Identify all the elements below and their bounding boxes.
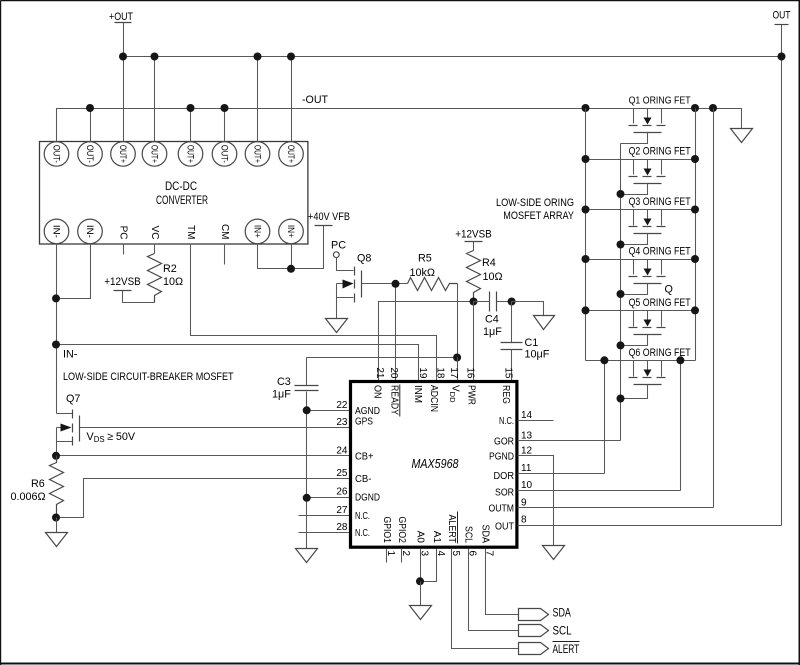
svg-text:+12VSB: +12VSB bbox=[104, 276, 141, 288]
svg-text:OUT+: OUT+ bbox=[186, 145, 196, 163]
wire IN- net to ADCIN pin 18 bbox=[57, 345, 419, 382]
wire VDD pin 17 down bbox=[457, 358, 459, 382]
wire PWR pin 16 down bbox=[473, 302, 475, 382]
svg-text:READY: READY bbox=[389, 385, 400, 415]
svg-text:GPIO2: GPIO2 bbox=[396, 517, 407, 544]
svg-text:+40V VFB: +40V VFB bbox=[308, 211, 350, 223]
wire pin OUT+ 5 up to -OUT rail bbox=[190, 109, 192, 142]
svg-text:SCL: SCL bbox=[553, 625, 573, 637]
svg-text:LOW-SIDE CIRCUIT-BREAKER MOSFE: LOW-SIDE CIRCUIT-BREAKER MOSFET bbox=[63, 371, 234, 383]
capacitor C3 1uF bbox=[272, 358, 319, 401]
wire GPIO2 stub bbox=[401, 549, 403, 563]
wire IN+ 8 down bbox=[291, 244, 293, 269]
ground below A0/A1 bbox=[410, 606, 432, 620]
svg-text:N.C.: N.C. bbox=[355, 511, 370, 522]
svg-text:DGND: DGND bbox=[355, 493, 380, 504]
svg-text:Q8: Q8 bbox=[357, 253, 371, 265]
wire R5 right end down to VDD node bbox=[457, 284, 459, 358]
connector flag SDA bbox=[519, 608, 572, 621]
svg-text:IN+: IN+ bbox=[253, 225, 263, 238]
wire ALERT pin 5 to flag bbox=[452, 549, 519, 649]
wire VDD run to C3 bbox=[307, 357, 458, 359]
wire Q8 gate to READY junction bbox=[362, 283, 408, 285]
ground below R6 bbox=[46, 533, 68, 547]
pin 18 ADCIN bbox=[428, 367, 446, 412]
pin OUT+ 3 bbox=[111, 142, 136, 167]
pin 13 GOR bbox=[494, 430, 533, 447]
svg-text:ON: ON bbox=[371, 385, 382, 399]
wire A0 pin 3 down bbox=[420, 549, 422, 582]
ground at -OUT rail right end bbox=[731, 129, 753, 143]
svg-text:CM: CM bbox=[219, 224, 230, 240]
svg-text:REG: REG bbox=[500, 385, 511, 404]
svg-text:28: 28 bbox=[336, 522, 348, 533]
wire CM stub bbox=[224, 244, 226, 265]
wire right bus of FET array bbox=[695, 109, 697, 361]
pin 21 ON bbox=[371, 367, 385, 398]
wire NC pin 27 stub bbox=[299, 515, 351, 517]
svg-text:R4: R4 bbox=[482, 257, 496, 269]
wire C4 left plate bbox=[474, 301, 490, 303]
pin 15 REG bbox=[500, 367, 514, 404]
transistor Q8 bbox=[337, 253, 372, 319]
svg-text:OUT: OUT bbox=[773, 10, 791, 22]
wire SCL pin 6 to flag bbox=[469, 549, 519, 631]
svg-text:10Ω: 10Ω bbox=[483, 271, 503, 283]
wire OUT vertical line to pin 8 bbox=[781, 25, 783, 526]
svg-text:Q5 ORING FET: Q5 ORING FET bbox=[629, 297, 691, 309]
wire pin OUT- 6 up to -OUT rail bbox=[224, 109, 226, 142]
svg-text:PC: PC bbox=[118, 226, 129, 240]
svg-text:N.C.: N.C. bbox=[355, 528, 370, 539]
pin 6 SCL bbox=[463, 526, 478, 557]
wire A1 pin 4 down join bbox=[421, 549, 437, 582]
pin 20 READY bbox=[388, 367, 400, 416]
wire IN- 1 down to Q7 drain bbox=[56, 244, 58, 414]
transistor Q1 ORING FET bbox=[621, 96, 691, 144]
pin 8 OUT bbox=[495, 515, 527, 533]
svg-text:16: 16 bbox=[465, 367, 476, 379]
DC-DC converter box bbox=[40, 142, 308, 245]
svg-text:SCL: SCL bbox=[463, 526, 474, 543]
junction dots top rails bbox=[86, 53, 786, 113]
wire REG node to ground right bbox=[512, 302, 544, 316]
svg-text:9: 9 bbox=[521, 497, 527, 508]
svg-text:Q7: Q7 bbox=[66, 393, 80, 405]
svg-text:IN-: IN- bbox=[85, 225, 95, 238]
svg-text:21: 21 bbox=[374, 367, 385, 379]
ground below Q8 bbox=[326, 319, 348, 333]
svg-text:OUT+: OUT+ bbox=[150, 145, 160, 163]
svg-text:15: 15 bbox=[503, 367, 514, 379]
svg-text:0.006Ω: 0.006Ω bbox=[11, 491, 46, 503]
svg-text:IN-: IN- bbox=[52, 225, 62, 238]
pin IN- 2 bbox=[78, 219, 103, 244]
svg-text:R5: R5 bbox=[418, 253, 432, 265]
svg-text:SDA: SDA bbox=[553, 608, 572, 620]
pin 23 GPS bbox=[336, 417, 373, 429]
resistor R6 0.006ohm bbox=[11, 456, 64, 518]
wire IN+ pins join bbox=[258, 226, 324, 269]
svg-text:18: 18 bbox=[435, 367, 446, 379]
transistor Q7 circuit breaker bbox=[57, 393, 81, 456]
pin 9 OUTM bbox=[489, 497, 528, 514]
wire CB- pin 25 jog from R6 bottom bbox=[57, 479, 351, 518]
svg-text:ALERT: ALERT bbox=[553, 644, 580, 656]
wire OUT pin 8 to OUT line bbox=[518, 525, 782, 527]
resistor R2 10ohm bbox=[148, 254, 184, 303]
svg-text:C1: C1 bbox=[525, 337, 539, 349]
svg-text:PGND: PGND bbox=[489, 451, 514, 462]
svg-text:11: 11 bbox=[521, 463, 532, 474]
svg-text:OUTM: OUTM bbox=[489, 503, 515, 514]
pin 11 DOR bbox=[494, 463, 532, 482]
svg-text:DC-DC: DC-DC bbox=[165, 179, 197, 193]
svg-text:A0: A0 bbox=[415, 531, 426, 544]
wire DOR vertical to Q6 rail bbox=[604, 361, 606, 474]
svg-text:10: 10 bbox=[521, 480, 533, 491]
svg-text:PWR: PWR bbox=[466, 385, 477, 405]
wire C4 right plate to REG node bbox=[497, 301, 512, 303]
svg-text:8: 8 bbox=[521, 515, 527, 526]
svg-text:GOR: GOR bbox=[494, 436, 514, 447]
wire A0/A1 node to ground bbox=[420, 582, 422, 606]
node +12VSB right supply bbox=[455, 229, 492, 242]
svg-text:Q2 ORING FET: Q2 ORING FET bbox=[629, 146, 691, 158]
wire ON pin 21 run to C4 bbox=[379, 302, 474, 382]
svg-text:R6: R6 bbox=[31, 478, 45, 490]
svg-text:R2: R2 bbox=[163, 263, 177, 275]
svg-text:+12VSB: +12VSB bbox=[455, 229, 492, 241]
svg-text:SDA: SDA bbox=[480, 525, 491, 544]
pin OUT- 6 bbox=[212, 142, 237, 167]
transistor Q5 ORING FET bbox=[582, 297, 700, 349]
ground right of C4 bbox=[534, 316, 555, 330]
wire pin OUT+ 4 up to +OUT rail bbox=[154, 58, 156, 142]
svg-text:OUT+: OUT+ bbox=[286, 145, 296, 163]
svg-text:10kΩ: 10kΩ bbox=[410, 267, 435, 279]
pin 28 NC bbox=[336, 522, 370, 539]
svg-text:25: 25 bbox=[336, 468, 348, 479]
svg-text:Q1 ORING FET: Q1 ORING FET bbox=[629, 96, 691, 107]
pin 1 GPIO1 bbox=[381, 517, 396, 557]
pin 14 NC bbox=[499, 410, 533, 427]
wire gate bus of FET array bbox=[620, 144, 622, 441]
svg-text:C3: C3 bbox=[277, 376, 291, 388]
node PC terminal bbox=[331, 240, 346, 258]
svg-text:14: 14 bbox=[521, 410, 533, 421]
svg-text:1μF: 1μF bbox=[272, 389, 291, 401]
pin 26 DGND bbox=[336, 487, 380, 504]
svg-text:TM: TM bbox=[185, 225, 196, 239]
wire DGND pin 26 bbox=[307, 497, 351, 499]
svg-text:AGND: AGND bbox=[355, 406, 380, 417]
svg-text:10Ω: 10Ω bbox=[163, 276, 183, 288]
svg-text:DOR: DOR bbox=[494, 471, 515, 482]
svg-text:23: 23 bbox=[336, 417, 348, 428]
wire IN- 2 down joining bbox=[57, 244, 91, 299]
svg-text:IN-: IN- bbox=[63, 349, 78, 361]
pin 25 CB- bbox=[336, 468, 371, 485]
pin 5 ALERT bbox=[446, 512, 461, 557]
pin IN+ 7 bbox=[245, 219, 270, 244]
svg-text:ALERT: ALERT bbox=[446, 515, 457, 544]
svg-text:LOW-SIDE ORING: LOW-SIDE ORING bbox=[496, 197, 574, 209]
pin 22 AGND bbox=[336, 400, 380, 417]
svg-text:Q3 ORING FET: Q3 ORING FET bbox=[629, 196, 691, 208]
svg-text:13: 13 bbox=[521, 430, 533, 441]
svg-text:CB+: CB+ bbox=[355, 451, 374, 462]
wire CB+ pin 24 from Q7 source node bbox=[57, 455, 351, 457]
capacitor C4 1uF bbox=[483, 292, 502, 339]
wire PC stub bbox=[123, 244, 125, 255]
wire +OUT terminal down to pin OUT+ 3 bbox=[123, 23, 125, 142]
svg-text:PC: PC bbox=[331, 240, 346, 252]
svg-text:OUT: OUT bbox=[495, 522, 514, 533]
svg-text:1μF: 1μF bbox=[483, 326, 502, 338]
svg-text:VC: VC bbox=[149, 226, 160, 240]
resistor R4 10ohm bbox=[467, 242, 503, 302]
wire VC stub to R2 bbox=[154, 244, 156, 254]
pin 2 GPIO2 bbox=[396, 517, 411, 557]
pin 24 CB+ bbox=[336, 445, 373, 462]
connector flag ALERT bbox=[519, 642, 580, 656]
svg-text:OUT-: OUT- bbox=[220, 145, 230, 163]
svg-text:CONVERTER: CONVERTER bbox=[156, 193, 208, 207]
svg-text:C4: C4 bbox=[485, 314, 499, 326]
pin 12 PGND bbox=[489, 445, 533, 462]
wire C3 bottom / AGND DGND ground line bbox=[306, 392, 308, 549]
wire DOR pin 11 bbox=[518, 473, 605, 475]
wire SDA pin 7 to flag bbox=[486, 549, 519, 615]
svg-text:MAX5968: MAX5968 bbox=[412, 457, 459, 471]
pin 19 INM bbox=[412, 367, 428, 403]
svg-text:SOR: SOR bbox=[495, 488, 514, 499]
svg-text:27: 27 bbox=[336, 505, 348, 516]
resistor R5 10kohm bbox=[408, 253, 458, 291]
wire GPIO1 stub bbox=[386, 549, 388, 563]
wire pin OUT+ 7 up to +OUT rail bbox=[257, 58, 259, 142]
svg-text:MOSFET ARRAY: MOSFET ARRAY bbox=[503, 210, 574, 222]
wire pin OUT- 2 up to -OUT rail bbox=[90, 109, 92, 142]
ground PGND bbox=[543, 546, 565, 560]
svg-text:22: 22 bbox=[336, 400, 348, 411]
svg-text:OUT-: OUT- bbox=[85, 145, 95, 163]
pin 7 SDA bbox=[480, 525, 495, 557]
ground below C3 line bbox=[296, 549, 318, 563]
wire GOR pin 13 to gate bus bbox=[518, 440, 621, 442]
svg-text:12: 12 bbox=[521, 445, 533, 456]
svg-text:OUT+: OUT+ bbox=[253, 145, 263, 163]
wire OUTM vertical to -OUT rail bbox=[713, 109, 715, 508]
pin OUT+ 4 bbox=[142, 142, 167, 167]
wire R6 bottom to ground bbox=[56, 518, 58, 533]
node +OUT terminal bbox=[109, 11, 133, 23]
pin OUT- 2 bbox=[78, 142, 103, 167]
wire AGND pin 22 bbox=[307, 410, 351, 412]
svg-text:OUT+: OUT+ bbox=[118, 145, 128, 163]
wire pin OUT+ 8 up to +OUT rail bbox=[291, 58, 293, 142]
node +12VSB left supply bbox=[104, 276, 141, 291]
svg-text:+OUT: +OUT bbox=[109, 11, 133, 23]
svg-text:ADCIN: ADCIN bbox=[428, 385, 439, 412]
wire SOR vertical to Q6 rail bbox=[680, 361, 682, 491]
node +40V VFB supply bbox=[308, 211, 350, 226]
wire TM to INM pin 19 bbox=[191, 244, 437, 382]
svg-text:17: 17 bbox=[448, 367, 459, 379]
svg-text:Q4 ORING FET: Q4 ORING FET bbox=[629, 246, 691, 258]
pin OUT+ 8 bbox=[279, 142, 304, 167]
pin 4 A1 bbox=[431, 531, 446, 557]
wire +OUT rail bbox=[124, 56, 782, 58]
svg-text:OUT-: OUT- bbox=[52, 145, 62, 163]
wire PC to Q8 drain bbox=[337, 258, 354, 271]
wire +12VSB to R2 bottom bbox=[123, 291, 155, 303]
svg-text:N.C.: N.C. bbox=[499, 416, 514, 427]
pin 17 VDD bbox=[448, 367, 460, 403]
transistor Q2 ORING FET bbox=[582, 146, 700, 199]
wire READY pin 20 down bbox=[395, 284, 397, 382]
op-amp ... IC U1 MAX5968 bbox=[351, 382, 517, 548]
transistor Q6 ORING FET bbox=[586, 347, 696, 403]
svg-text:10μF: 10μF bbox=[525, 349, 550, 361]
wire GPS pin 23 from Q7 gate bbox=[80, 427, 351, 429]
svg-text:IN+: IN+ bbox=[286, 225, 296, 238]
svg-text:INM: INM bbox=[412, 385, 423, 403]
node OUT terminal top right bbox=[773, 10, 791, 25]
svg-text:GPS: GPS bbox=[355, 417, 373, 428]
wire left bus of FET array bbox=[585, 109, 587, 361]
wire NC pin 14 stub bbox=[518, 420, 554, 422]
wire NC pin 28 stub bbox=[299, 532, 351, 534]
svg-text:26: 26 bbox=[336, 487, 348, 498]
pin OUT- 1 bbox=[44, 142, 69, 167]
wire OUTM pin 9 bbox=[518, 507, 714, 509]
connector flag SCL bbox=[519, 625, 573, 638]
svg-text:CB-: CB- bbox=[355, 474, 372, 485]
wire SOR pin 10 bbox=[518, 490, 681, 492]
svg-text:-OUT: -OUT bbox=[302, 94, 328, 106]
transistor Q3 ORING FET bbox=[582, 196, 700, 249]
pin OUT+ 5 bbox=[178, 142, 203, 167]
pin 27 NC bbox=[336, 505, 370, 522]
wire PGND pin 12 to ground bbox=[518, 456, 554, 546]
svg-text:Q: Q bbox=[665, 284, 673, 296]
wire REG pin 15 down bbox=[511, 350, 513, 382]
svg-text:19: 19 bbox=[417, 367, 428, 379]
pin IN- 1 bbox=[44, 219, 69, 244]
svg-text:24: 24 bbox=[336, 445, 348, 456]
pin 10 SOR bbox=[495, 480, 533, 499]
svg-text:20: 20 bbox=[388, 367, 399, 379]
label low-side oring mosfet array bbox=[496, 197, 574, 222]
svg-text:A1: A1 bbox=[431, 531, 442, 544]
pin 16 PWR bbox=[465, 367, 477, 405]
transistor Q4 ORING FET bbox=[582, 246, 700, 299]
pin 3 A0 bbox=[415, 531, 430, 557]
wire -OUT rail bbox=[57, 109, 742, 142]
svg-text:GPIO1: GPIO1 bbox=[381, 517, 392, 544]
capacitor C1 10uF bbox=[501, 302, 550, 361]
pin OUT+ 7 bbox=[245, 142, 270, 167]
pin IN+ 8 bbox=[279, 219, 304, 244]
